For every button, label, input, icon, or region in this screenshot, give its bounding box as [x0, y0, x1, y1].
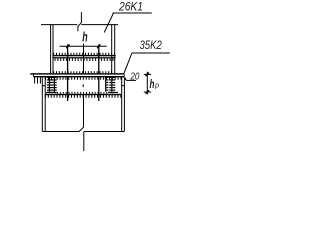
axis dash [82, 84, 84, 87]
upper column right flange [111, 25, 113, 74]
label 20 (plate thickness) [124, 71, 140, 82]
label 26K1 with leader [104, 0, 152, 32]
upper column cut line [41, 24, 77, 26]
left splice rib pair with welds [46, 77, 56, 93]
splice plate t=20 [30, 71, 124, 83]
right flange rung [122, 85, 125, 87]
upper column left flange [50, 25, 52, 74]
lower rib left (web ext) [67, 77, 69, 101]
lower column right flange [121, 77, 123, 131]
lower rib right (web ext) [98, 77, 100, 101]
upper rib right [98, 45, 100, 74]
lower column cut line [42, 131, 78, 133]
left flange rung [42, 85, 45, 87]
dimension h [60, 28, 107, 48]
dimension hp [144, 72, 159, 95]
svg-text:35K2: 35K2 [140, 38, 163, 52]
lower weld line [45, 92, 122, 98]
lower column web [83, 94, 85, 127]
diaphragm weld band [52, 53, 115, 61]
lower column left flange [41, 77, 43, 131]
svg-text:h: h [82, 28, 87, 44]
right splice rib pair with welds [106, 77, 118, 93]
upper column web [83, 44, 85, 74]
upper rib left [67, 45, 69, 74]
break mark (lower column) [79, 127, 84, 132]
break mark (upper column) [78, 12, 82, 31]
label 35K2 with leader [124, 38, 170, 74]
svg-text:p: p [154, 81, 159, 90]
svg-text:26K1: 26K1 [118, 0, 143, 13]
svg-text:h: h [150, 77, 155, 91]
